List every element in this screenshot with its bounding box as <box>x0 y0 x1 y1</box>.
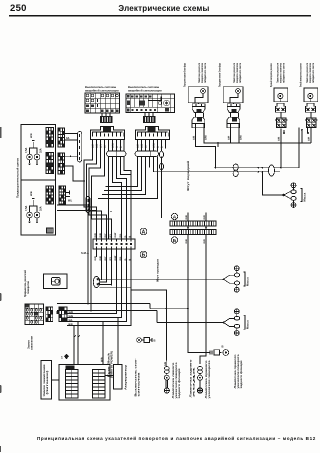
ground group 3: upper bullet connector <box>234 316 239 320</box>
svg-text:габаритного света: габаритного света <box>238 63 242 83</box>
wire right to front harness (lower) <box>154 171 281 173</box>
turn signal switch S2 contact table <box>126 94 175 113</box>
wire box1 to relay box <box>52 379 60 381</box>
inline connector oval P2 <box>269 165 275 176</box>
svg-text:10A: 10A <box>40 206 43 211</box>
hazard warning switch S1 contact table <box>85 93 120 113</box>
caption: schematic title <box>37 436 315 441</box>
svg-text:аварийной сигнализации: аварийной сигнализации <box>85 89 119 93</box>
harness strip connector B (hatched bar) <box>170 230 216 235</box>
svg-text:аварийной сигнализации: аварийной сигнализации <box>128 89 162 93</box>
inline connector ovals on wire to harness <box>160 151 164 170</box>
chain 1 label <box>171 362 181 399</box>
svg-text:Аккумулятор: Аккумулятор <box>124 364 128 390</box>
fuse F4 <box>34 209 40 223</box>
fuse feed wire lower section <box>30 199 38 210</box>
fuse F1 7.5A <box>27 151 33 165</box>
wire relay box to battery <box>105 375 113 377</box>
ground group 2: upper bullet connector <box>234 273 239 277</box>
ground group 3: fork <box>224 319 235 327</box>
wire upper branch through P2 <box>216 128 300 168</box>
fuse box outline <box>21 125 56 236</box>
junction dots mesh left <box>92 159 125 183</box>
battery feed symbol near relay box <box>137 338 152 343</box>
flasher wires to harness <box>100 279 224 287</box>
harness connector H1 facing fuse box <box>58 128 65 147</box>
junction dots mesh right <box>98 186 112 213</box>
battery feed symbol right (chain area) <box>202 350 229 356</box>
rear lamp chain 2: earth bolt <box>197 388 202 393</box>
label: передняя левая блок-фара (lamp unit U2) <box>218 63 243 87</box>
joint connector (vertical bar) left lower <box>86 197 90 213</box>
wire bundle from connector X1 down through mesh <box>84 140 131 240</box>
wire bundle from connector X2 down through mesh <box>99 140 166 219</box>
fuse F2 10A <box>34 151 40 165</box>
ground group 3: lower bullet connector <box>234 324 239 328</box>
page header number <box>10 3 27 14</box>
junction dot at ground fork 2 <box>223 278 225 280</box>
vertical text block left of chain 2 <box>189 359 196 398</box>
wires into strip A from top <box>188 213 206 222</box>
wire from H2 to joint bar <box>65 155 78 157</box>
wire feed into battery <box>117 318 119 365</box>
connector below lamp U1 <box>192 104 205 113</box>
long harness wire B <box>57 211 224 323</box>
circled letter A above strip <box>171 213 177 220</box>
ground group 3: top earth bolt <box>234 309 239 316</box>
harness strip connector A (hatched bar) <box>170 221 216 226</box>
bottom left box text <box>42 364 49 397</box>
ground group 1: top earth bolt <box>291 183 296 190</box>
diamond marker 1 <box>61 354 69 360</box>
svg-text:Жгут передний: Жгут передний <box>186 160 190 191</box>
svg-text:Масса: Масса <box>303 192 307 201</box>
ignition switch table marks <box>25 304 37 315</box>
ground group 1: lower bullet connector <box>291 197 296 201</box>
fuse box edge connector G3 <box>46 186 54 204</box>
ground group 1: bottom earth bolt <box>291 200 296 207</box>
wire labels below strip B <box>185 239 206 244</box>
wire feed into relay box <box>102 322 104 365</box>
connector (black) below turn signal switch <box>143 116 156 123</box>
svg-text:G/R: G/R <box>308 136 311 141</box>
long harness wire A <box>57 213 188 309</box>
svg-text:Предохранительный щиток: Предохранительный щиток <box>16 157 20 198</box>
svg-text:габаритного света: габаритного света <box>311 63 315 83</box>
junction dot between strips <box>187 227 207 229</box>
wire labels below U2 <box>228 134 243 140</box>
wire colour labels under connectors X1 X2 <box>91 142 163 148</box>
wire lamp U3 stub dot <box>283 132 309 134</box>
connector below lamp U2 <box>227 104 240 113</box>
svg-text:G/W: G/W <box>114 232 117 238</box>
hazard switch label S1 <box>85 85 119 93</box>
wire from H2 down-right <box>65 166 86 181</box>
ignition wire labels <box>69 311 74 326</box>
relay box ladder connector 2 <box>93 370 106 399</box>
svg-text:габаритного света: габаритного света <box>203 63 207 83</box>
svg-text:G/B: G/B <box>185 239 188 244</box>
wires below strip B <box>188 235 206 365</box>
fuse box edge connector G2 <box>46 153 54 174</box>
turn signal switch label S2 <box>128 85 162 93</box>
ground group 2: fork <box>224 275 235 283</box>
junction dots below SMJ <box>101 279 128 323</box>
fuse box lower edge dark connector <box>46 228 54 234</box>
svg-text:B: B <box>128 236 131 238</box>
svg-text:поворотов: поворотов <box>27 281 30 294</box>
connector (black) below hazard switch <box>100 116 113 123</box>
rear lamp chain 2: lamp <box>198 375 203 388</box>
fuse feed wire upper section <box>30 141 38 152</box>
svg-text:сигналов: сигналов <box>138 372 141 397</box>
fuse F3 <box>27 209 33 223</box>
svg-text:Б: Б <box>173 238 177 244</box>
svg-text:W/R: W/R <box>101 357 104 362</box>
circled letter B below strip <box>171 237 177 244</box>
junction dots on fork 3 feed <box>166 322 225 324</box>
svg-text:Передняя правая блок-фара: Передняя правая блок-фара <box>183 63 187 87</box>
junction dots lamp bus <box>215 129 303 169</box>
svg-text:хода: хода <box>193 365 196 398</box>
ground group 1: upper bullet connector <box>291 190 296 194</box>
joint connector bar A (under hazard switch wires) <box>107 151 127 157</box>
wire from H3 to lower joint bar <box>57 197 86 206</box>
chain 2 label <box>204 360 211 399</box>
svg-text:G/B: G/B <box>99 233 102 238</box>
label: левый боковой указатель поворота (lamp U4) <box>299 63 316 87</box>
lamp unit U4 housing <box>304 88 318 102</box>
link between strips <box>188 226 206 230</box>
svg-text:указателя поворота: указателя поворота <box>208 360 211 399</box>
flasher unit box <box>44 274 68 289</box>
svg-text:A: A <box>142 230 146 236</box>
branch wires down to relay box <box>74 322 80 365</box>
svg-text:7,5A: 7,5A <box>25 148 28 153</box>
relay box outline <box>59 365 110 401</box>
ground group 2: lower bullet connector <box>234 281 239 285</box>
svg-text:Правый повторитель указателя: Правый повторитель указателя <box>269 63 273 87</box>
svg-text:G/B: G/B <box>185 215 188 220</box>
svg-text:G/R: G/R <box>94 233 97 238</box>
svg-text:Передняя левая блок-фара: Передняя левая блок-фара <box>218 63 222 87</box>
svg-text:10A: 10A <box>40 148 43 153</box>
wire labels above SMJ <box>94 232 132 238</box>
flasher unit label <box>23 270 30 297</box>
svg-text:G/L: G/L <box>119 233 122 238</box>
svg-text:Левый повторитель указателя: Левый повторитель указателя <box>299 63 303 87</box>
fuse box edge connector G1 <box>46 128 54 148</box>
ground group 3: bottom earth bolt <box>234 328 239 335</box>
label: правый боковой указатель поворота (lamp U3) <box>269 63 286 87</box>
svg-text:B: B <box>222 345 224 349</box>
svg-text:(питание): (питание) <box>45 370 49 394</box>
svg-text:B: B <box>154 339 156 343</box>
wire label near ladder top <box>101 357 104 362</box>
rear lamp chain 1: lamp <box>164 375 169 388</box>
hazard switch S1 table marks <box>86 104 119 112</box>
svg-text:G: G <box>124 236 127 238</box>
wire down to ground group 1 <box>263 172 284 195</box>
fuse block note <box>108 351 114 378</box>
rear lamp chain 1: earth bolt <box>164 388 169 393</box>
harness connector H2 facing fuse box <box>58 153 65 174</box>
harness connector X1 (below hazard switch) <box>91 127 125 140</box>
harness connector below lamp U3 <box>275 112 288 127</box>
harness connector below lamp U4 <box>305 112 318 127</box>
harness connector below lamp U2 <box>227 113 240 128</box>
joint connector bar B (under turn switch wires) <box>135 151 159 157</box>
svg-text:габаритного света: габаритного света <box>282 63 286 83</box>
right bottom label block <box>233 354 243 389</box>
relay box CMA mark <box>66 366 75 370</box>
svg-text:W/B: W/B <box>30 191 33 196</box>
wire labels above strip A <box>185 215 206 220</box>
vertical text block left of chain 1 <box>134 358 141 396</box>
wire bundle below SMJ <box>97 249 167 360</box>
junction dots on long wires <box>166 308 189 310</box>
long wire below joint bar <box>57 210 97 212</box>
wire labels below U1 <box>193 134 208 140</box>
svg-text:GY: GY <box>109 234 112 238</box>
ignition switch label <box>27 336 34 350</box>
header rule <box>9 15 311 17</box>
ignition harness connector <box>56 307 67 322</box>
svg-text:W/R: W/R <box>30 133 33 138</box>
svg-text:G/B: G/B <box>278 136 281 141</box>
junction dots ignition branches <box>73 289 132 326</box>
svg-text:Масса: Масса <box>246 320 250 329</box>
wire stubs from S2 to connector <box>145 113 153 117</box>
relay box ladder connector 1 <box>66 370 79 399</box>
turn signal switch S2 table marks <box>127 95 169 112</box>
svg-text:Масса: Масса <box>246 277 250 286</box>
rear lamp chain 2: bullet connectors <box>198 367 203 376</box>
svg-text:Выключатель системы: Выключатель системы <box>85 85 117 89</box>
page header title <box>0 4 320 13</box>
ground group 1: fork <box>283 192 291 198</box>
bottom left box with label <box>41 361 52 400</box>
ground group 2: top earth bolt <box>234 266 239 273</box>
wire lamp U1 right leg to bus <box>204 128 311 147</box>
lamp unit U3 housing <box>274 88 288 102</box>
wire dots near P1 <box>258 167 264 173</box>
wire label below U3 <box>278 136 281 141</box>
page edge artifacts <box>0 127 2 452</box>
wire lamp U2 legs <box>231 128 240 143</box>
label: передняя правая блок-фара (lamp unit U1) <box>183 63 208 87</box>
harness connector below lamp U1 <box>192 113 205 128</box>
harness connector H3 facing fuse box <box>59 186 70 204</box>
ground group 3 bracket and label <box>244 315 246 329</box>
svg-text:G/R: G/R <box>203 239 206 244</box>
ground group 1 bracket and label <box>301 189 303 202</box>
svg-text:Б: Б <box>142 253 146 259</box>
battery box <box>113 365 122 390</box>
svg-text:G/L: G/L <box>66 138 70 140</box>
svg-text:зажигания: зажигания <box>31 336 34 350</box>
svg-text:заднего фонаря: заднего фонаря <box>239 360 243 389</box>
ground group 2 bracket and label <box>244 272 246 286</box>
wire lamp U4 legs <box>284 128 311 143</box>
S.M.J. super multiple junction connector <box>93 239 135 249</box>
flasher connector oval <box>93 276 99 287</box>
svg-text:G/Y: G/Y <box>104 233 107 238</box>
svg-text:1: 1 <box>61 356 63 360</box>
svg-text:Выключатель системы: Выключатель системы <box>128 85 160 89</box>
wire lamp U1 left leg <box>196 128 234 168</box>
wire label below U4 <box>308 136 311 141</box>
svg-text:G/R: G/R <box>203 215 206 220</box>
ignition switch connector <box>46 307 53 322</box>
inline connector pair P1 <box>233 164 238 177</box>
connector below lamp U3 <box>276 103 286 112</box>
svg-text:заднего фонаря: заднего фонаря <box>177 368 181 399</box>
wire stubs from S1 to connector <box>102 113 110 116</box>
svg-text:7,5A: 7,5A <box>25 206 28 211</box>
ground group 2: bottom earth bolt <box>234 285 239 292</box>
lamp unit U1 housing <box>188 87 208 104</box>
wire labels below SMJ <box>94 255 132 261</box>
svg-text:W/L: W/L <box>68 201 73 203</box>
cross link on long wires <box>166 290 168 361</box>
ignition feed wires to harness <box>67 290 131 326</box>
junction dots bottom feeds <box>87 303 119 323</box>
circled letter B right of SMJ <box>140 251 147 259</box>
harness connector X2 (below turn signal switch) <box>136 127 170 140</box>
circled letter A right of SMJ <box>140 228 147 236</box>
svg-text:A: A <box>173 215 177 221</box>
svg-text:G/W: G/W <box>205 134 208 140</box>
joint connector (vertical bar) left upper <box>78 132 82 163</box>
svg-text:G/W: G/W <box>240 134 243 140</box>
wire from H1 to joint bar <box>65 133 78 135</box>
ignition switch contact table <box>25 304 44 325</box>
lamp unit U2 housing <box>223 87 243 104</box>
wire H1 lower to joint bar <box>65 139 78 141</box>
connector below lamp U4 <box>306 103 316 112</box>
rear lamp chain 1: bullet connectors <box>164 361 169 376</box>
